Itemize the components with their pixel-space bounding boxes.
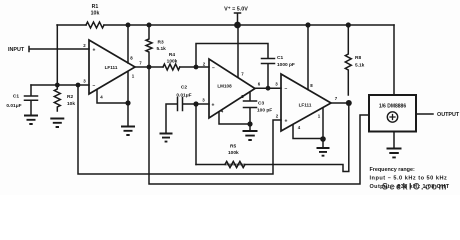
svg-text:3: 3 xyxy=(202,98,205,103)
svg-text:5.1k: 5.1k xyxy=(157,46,167,52)
svg-text:100 pF: 100 pF xyxy=(257,108,272,114)
svg-text:+: + xyxy=(212,103,215,109)
svg-text:6: 6 xyxy=(258,82,261,87)
svg-text:1: 1 xyxy=(318,114,321,119)
svg-text:−: − xyxy=(212,66,215,72)
svg-text:0.01μF: 0.01μF xyxy=(176,93,191,99)
svg-text:7: 7 xyxy=(335,96,338,101)
svg-text:LM108: LM108 xyxy=(217,84,232,89)
svg-text:7: 7 xyxy=(139,61,142,66)
svg-text:1000 pF: 1000 pF xyxy=(277,62,295,68)
svg-text:+: + xyxy=(93,48,96,54)
svg-text:−: − xyxy=(285,86,288,92)
svg-text:R3: R3 xyxy=(158,40,164,46)
svg-text:0.01μF: 0.01μF xyxy=(6,103,21,109)
svg-text:C1: C1 xyxy=(277,55,283,61)
svg-text:3: 3 xyxy=(83,79,86,84)
svg-text:2: 2 xyxy=(203,62,206,67)
svg-text:3: 3 xyxy=(275,82,278,87)
svg-text:2: 2 xyxy=(83,43,86,48)
svg-text:Frequency range:: Frequency range: xyxy=(370,167,415,173)
svg-text:100k: 100k xyxy=(167,59,178,65)
svg-text:R5: R5 xyxy=(230,144,236,150)
svg-text:−: − xyxy=(93,83,96,89)
svg-text:LF111: LF111 xyxy=(299,103,312,108)
svg-text:R2: R2 xyxy=(67,94,73,100)
svg-text:SєєkIC.сom: SєєkIC.сom xyxy=(382,182,448,192)
svg-text:R4: R4 xyxy=(169,52,175,58)
svg-text:100k: 100k xyxy=(228,150,239,156)
svg-text:1: 1 xyxy=(132,74,135,79)
svg-text:10k: 10k xyxy=(67,101,75,107)
svg-text:5.1k: 5.1k xyxy=(355,63,365,69)
svg-text:1/6 DM8886: 1/6 DM8886 xyxy=(379,104,406,110)
svg-text:V⁺ = 5.0V: V⁺ = 5.0V xyxy=(224,7,248,13)
svg-text:INPUT: INPUT xyxy=(8,47,25,53)
svg-text:R1: R1 xyxy=(92,4,99,10)
svg-text:R8: R8 xyxy=(355,55,361,61)
svg-text:8: 8 xyxy=(130,56,133,61)
svg-text:10k: 10k xyxy=(91,11,100,17)
svg-text:7: 7 xyxy=(241,72,244,77)
svg-text:2: 2 xyxy=(276,114,279,119)
svg-text:C1: C1 xyxy=(13,94,19,100)
svg-text:+: + xyxy=(285,119,288,125)
svg-text:4: 4 xyxy=(298,125,301,130)
svg-text:OUTPUT: OUTPUT xyxy=(437,112,460,118)
svg-text:C3: C3 xyxy=(258,101,264,107)
svg-text:4: 4 xyxy=(100,95,103,100)
svg-text:LF111: LF111 xyxy=(105,65,118,70)
svg-text:C2: C2 xyxy=(181,85,187,91)
svg-text:8: 8 xyxy=(310,83,313,88)
